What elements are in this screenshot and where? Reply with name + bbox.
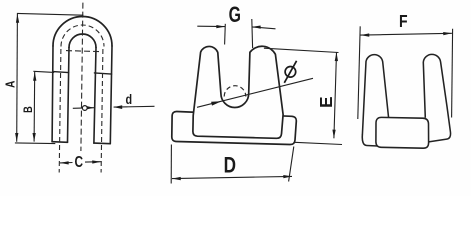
arrow c right bbox=[92, 160, 101, 163]
U-bolt outer arc bbox=[53, 16, 112, 46]
arrow B bottom bbox=[33, 133, 36, 142]
U-bolt vertical dashed centerline bbox=[81, 3, 83, 151]
phi symbol bbox=[284, 61, 296, 83]
arc center horizontal dashed line bbox=[66, 51, 101, 52]
dimension c line left segment bbox=[60, 162, 73, 164]
left leg thread-start line bbox=[53, 72, 68, 73]
dimension D line bbox=[172, 176, 292, 178]
hidden rope hole dashed arc bbox=[224, 86, 246, 97]
left leg dashed centerline bbox=[59, 49, 61, 173]
dimension G line right segment bbox=[252, 27, 276, 29]
dimension E line bbox=[334, 52, 337, 138]
U-bolt rod centerline dashed arc bbox=[61, 25, 104, 46]
phi leader line bbox=[197, 78, 313, 107]
small circle marker on d leader bbox=[82, 106, 87, 111]
clip body with prongs and rope groove (middle view) bbox=[193, 46, 283, 138]
arrow E top bbox=[335, 52, 338, 61]
dimension A line bbox=[16, 14, 19, 142]
dimension A/B bottom extension line bbox=[15, 142, 55, 145]
right leg thread-start line bbox=[94, 73, 111, 74]
dimension c line right segment bbox=[85, 161, 101, 163]
U-bolt left leg inner edge bbox=[68, 48, 70, 143]
dimension B top extension line bbox=[33, 71, 54, 72]
dimension A top extension line bbox=[17, 13, 84, 15]
dimension F left extension line bbox=[358, 26, 360, 119]
svg-text:E: E bbox=[316, 96, 337, 108]
arrow A bottom bbox=[15, 133, 18, 142]
arrow E bottom bbox=[332, 130, 335, 139]
arrow A top bbox=[16, 14, 19, 23]
dimension E bottom extension line bbox=[295, 142, 343, 144]
U-bolt left leg outer edge bbox=[51, 46, 54, 142]
U-bolt inner arc bbox=[69, 34, 96, 48]
U-bolt right leg inner edge bbox=[94, 48, 96, 144]
dimension G right extension line bbox=[251, 19, 254, 48]
side view left prong with foot bbox=[362, 55, 388, 146]
arrow F right bbox=[443, 32, 452, 35]
dimension d line left segment bbox=[73, 107, 94, 110]
side view right prong with foot bbox=[423, 54, 450, 142]
dimension G line left segment bbox=[197, 25, 225, 27]
dimension G left extension line bbox=[224, 24, 227, 45]
dimension D left extension line bbox=[170, 145, 172, 184]
side view nut plate bbox=[376, 117, 429, 148]
svg-text:B: B bbox=[23, 106, 35, 113]
svg-text:A: A bbox=[4, 81, 17, 88]
left leg bottom edge bbox=[52, 141, 67, 144]
arrow G left bbox=[216, 25, 225, 28]
svg-text:C: C bbox=[75, 152, 84, 170]
svg-text:d: d bbox=[126, 92, 133, 107]
right leg dashed centerline bbox=[101, 49, 103, 173]
arrow G right bbox=[252, 26, 261, 29]
arrow D right bbox=[283, 175, 292, 178]
dimension F right extension line bbox=[452, 29, 453, 118]
clip base plate (middle view) bbox=[172, 111, 297, 144]
right leg bottom edge bbox=[94, 142, 110, 145]
svg-text:F: F bbox=[399, 11, 408, 31]
arrow c left bbox=[60, 161, 69, 164]
U-bolt right leg outer edge bbox=[110, 46, 112, 144]
dimension D right extension line bbox=[289, 147, 294, 182]
arrow d outer (points at leg right edge) bbox=[114, 105, 123, 109]
arrow B top bbox=[33, 72, 36, 81]
arrow D left bbox=[172, 177, 181, 180]
svg-text:G: G bbox=[229, 3, 241, 27]
arrow d inner (points at leg left edge) bbox=[86, 106, 95, 110]
phi leader arrowhead bbox=[211, 101, 221, 105]
dimension d line right segment bbox=[114, 105, 155, 108]
dimension B line bbox=[33, 72, 36, 142]
dimension F line bbox=[361, 33, 452, 35]
arrow F left bbox=[361, 33, 370, 36]
svg-text:D: D bbox=[224, 154, 236, 179]
dimension E top extension line bbox=[264, 48, 339, 52]
